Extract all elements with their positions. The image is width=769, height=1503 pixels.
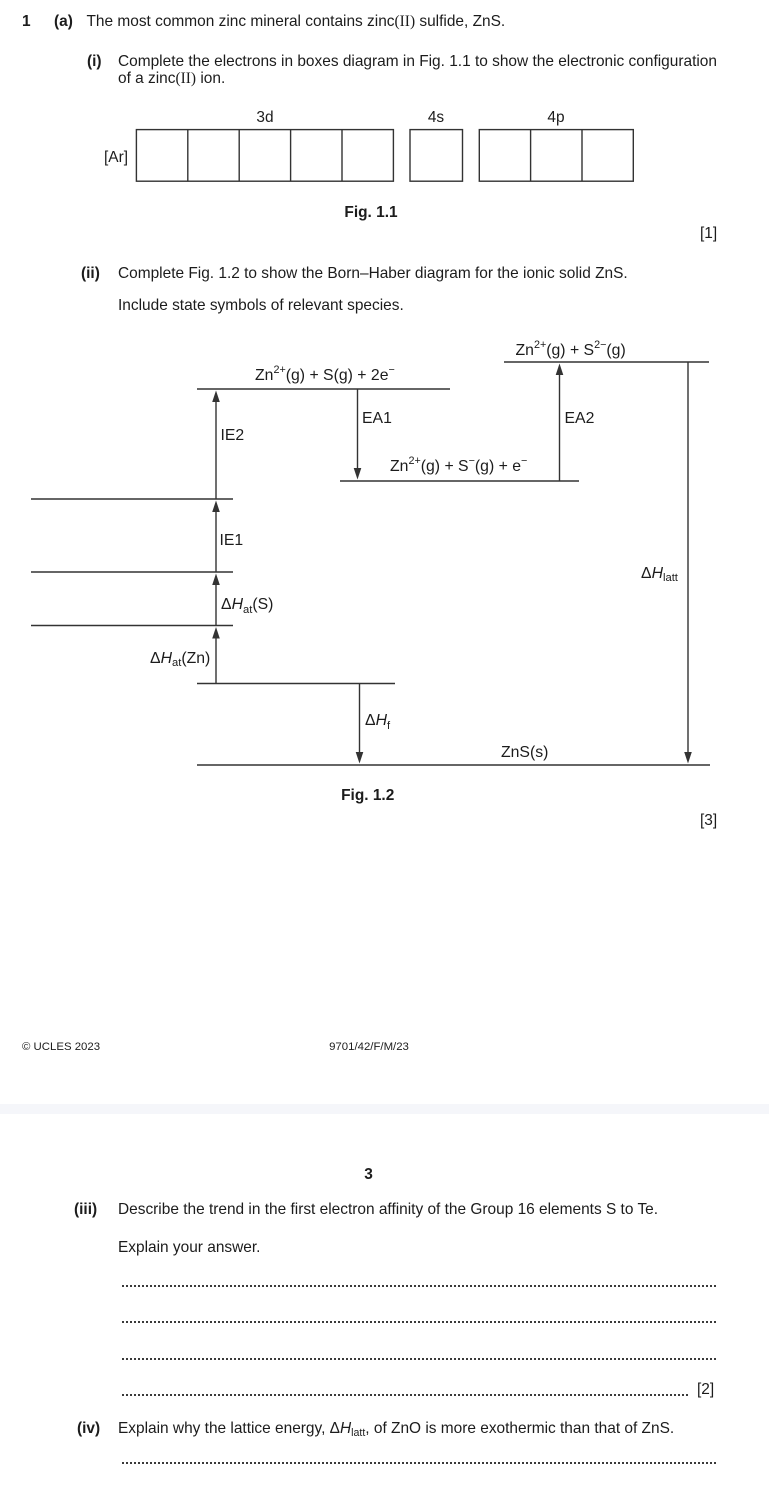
answer dotted line 4 — [122, 1394, 688, 1396]
energy level ZnS(s) — [197, 764, 710, 766]
answer dotted line 1 — [122, 1285, 716, 1287]
electron box group 3d — [136, 130, 393, 182]
elements level — [197, 683, 395, 685]
electron box group 4p — [479, 130, 633, 182]
arrowhead dHf — [356, 752, 364, 764]
arrow dHf shaft — [359, 684, 361, 755]
label dHat(S) — [221, 596, 273, 615]
page separator band — [0, 1104, 769, 1114]
blank level 2 — [31, 571, 233, 573]
label Zn2+(g)+S(g)+2e- — [255, 367, 395, 386]
orbital labels — [256, 109, 273, 126]
footer page 2 — [22, 1041, 100, 1054]
arrowhead EA1 — [354, 468, 362, 480]
arrow dHat(S) shaft — [215, 583, 217, 626]
arrow IE1 shaft — [215, 510, 217, 572]
energy level Zn2+(g)+S(g)+2e- — [197, 388, 450, 390]
label Zn2+(g)+S2-(g) — [516, 342, 626, 361]
arrow EA1 shaft — [357, 389, 359, 470]
answer dotted line 2 — [122, 1321, 716, 1323]
arrowhead EA2 — [556, 364, 564, 376]
arrow dHat(Zn) shaft — [215, 636, 217, 684]
answer dotted line 5 — [122, 1462, 716, 1464]
label IE1 — [220, 532, 244, 549]
energy level Zn2+(g)+S2-(g) — [504, 361, 709, 363]
label ZnS(s) — [501, 744, 548, 761]
label IE2 — [221, 427, 245, 444]
label EA2 — [565, 410, 595, 427]
label dHf — [365, 712, 390, 731]
label dHat(Zn) — [150, 650, 210, 669]
label dHlatt — [641, 565, 678, 584]
label Zn2+(g)+S-(g)+e- — [390, 458, 527, 477]
electron box 4s — [410, 130, 463, 182]
arrow IE2 shaft — [215, 400, 217, 499]
arrowhead dHat(S) — [212, 574, 220, 586]
arrowhead IE1 — [212, 501, 220, 513]
energy level Zn2+(g)+S-(g)+e- — [340, 480, 579, 482]
blank level 1 — [31, 498, 233, 500]
arrowhead IE2 — [212, 391, 220, 403]
arrow EA2 shaft — [559, 373, 561, 481]
answer dotted line 3 — [122, 1358, 716, 1360]
label EA1 — [362, 410, 392, 427]
blank level 3 — [31, 625, 233, 627]
arrowhead dHat(Zn) — [212, 627, 220, 639]
arrow dHlatt shaft — [687, 362, 689, 754]
arrowhead dHlatt — [684, 752, 692, 764]
